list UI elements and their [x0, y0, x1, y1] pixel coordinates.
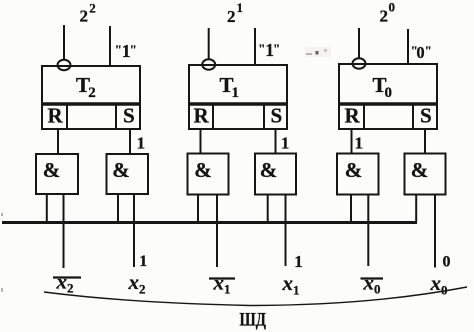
inverter bubble T1 [202, 59, 215, 69]
flip-flop T1 R cell [189, 104, 213, 130]
svg-text:S: S [271, 104, 283, 128]
svg-text:&: & [112, 158, 130, 182]
flip-flop T2 middle cell [67, 104, 116, 129]
and-gate G4 [255, 154, 296, 195]
svg-text:1: 1 [139, 253, 147, 270]
label x1 [282, 271, 300, 298]
svg-text:0: 0 [443, 253, 451, 270]
scan speck smudge [305, 47, 331, 57]
label x1-bar [209, 271, 235, 297]
wire S1 to gate G4 [275, 129, 277, 154]
label "0" T0 [411, 43, 432, 62]
wire input 2^2 [63, 25, 65, 60]
wire S0 to gate G6 [424, 129, 426, 154]
and-gate G2 [107, 154, 149, 194]
label x0 [430, 271, 448, 298]
flip-flop T1 divider [189, 102, 287, 106]
bus line [2, 221, 417, 224]
svg-text:0: 0 [389, 0, 396, 15]
svg-text:x: x [56, 270, 68, 294]
svg-text:ШД: ШД [240, 311, 267, 331]
svg-text:&: & [43, 158, 61, 182]
wire R2 to gate G1 [57, 129, 59, 154]
wire input "0" T0 [407, 29, 409, 64]
label x2 [128, 270, 146, 297]
svg-text:2: 2 [227, 7, 236, 26]
wire G5 right leg to x0-bar [367, 195, 369, 267]
svg-text:x: x [128, 270, 140, 294]
svg-text:R: R [48, 104, 64, 128]
svg-text:1: 1 [293, 283, 300, 298]
svg-text:1: 1 [294, 252, 303, 271]
flip-flop T1 S cell [264, 104, 287, 130]
svg-text:2: 2 [139, 282, 146, 297]
wire G1 left leg [46, 194, 48, 222]
svg-text:1: 1 [355, 134, 364, 153]
flip-flop T0 R cell [339, 104, 364, 130]
svg-text:S: S [420, 104, 432, 128]
svg-text:2: 2 [88, 85, 96, 101]
svg-text:&: & [194, 158, 212, 182]
svg-text:&: & [260, 158, 278, 182]
svg-text:1: 1 [237, 0, 244, 15]
flip-flop T1 body [189, 65, 287, 104]
svg-text:0: 0 [385, 85, 393, 101]
label x2-bar [53, 270, 81, 296]
flip-flop T2 R cell [42, 104, 67, 130]
wire input "1" T2 [109, 26, 111, 66]
wire G6 right leg to x0 [434, 195, 436, 268]
svg-text:1: 1 [232, 85, 240, 101]
wire input 2^1 [208, 28, 210, 59]
wire G3 right leg to x1-bar [216, 195, 218, 268]
and-gate G5 [337, 154, 379, 195]
and-gate G3 [188, 154, 229, 195]
flip-flop T2 body [42, 66, 140, 104]
wire G2 left leg [117, 194, 119, 222]
svg-text:x: x [213, 271, 225, 295]
svg-text:0: 0 [416, 43, 424, 62]
flip-flop T0 body [339, 64, 437, 104]
svg-text:": " [425, 43, 432, 58]
scan speck 3 [1, 213, 3, 216]
svg-text:&: & [345, 158, 363, 182]
label "1" T2 [115, 41, 137, 61]
wire G6 left leg [415, 195, 417, 223]
svg-text:x: x [363, 271, 375, 295]
wire G2 right leg to x2 [133, 194, 135, 267]
svg-text:R: R [345, 104, 361, 128]
svg-text:0: 0 [374, 282, 381, 297]
flip-flop T1 middle cell [213, 104, 264, 129]
wire input 2^0 [358, 28, 360, 58]
svg-text:x: x [282, 271, 294, 295]
wire R0 to gate G5 [351, 129, 353, 154]
flip-flop T0 divider [339, 102, 437, 106]
svg-text:": " [273, 41, 280, 56]
wire G4 left leg [267, 195, 269, 223]
label 2^2 [80, 1, 96, 26]
wire G4 right leg to x1 [285, 195, 287, 267]
label 2^1 [227, 0, 243, 26]
inverter bubble T2 [58, 60, 71, 70]
wire G5 left leg [350, 195, 352, 223]
and-gate G1 [36, 154, 78, 194]
label 2^0 [380, 0, 396, 26]
and-gate G6 [405, 154, 446, 195]
svg-text:2: 2 [67, 281, 74, 296]
brace curve for bus group [44, 287, 467, 306]
wire input "1" T1 [254, 28, 256, 65]
svg-text:1: 1 [281, 134, 289, 153]
wire R1 to gate G3 [200, 129, 202, 154]
wire S2 to gate G2 [129, 129, 131, 154]
svg-text:S: S [123, 104, 135, 128]
inverter bubble T0 [353, 58, 366, 68]
wire G1 right leg to x2-bar [63, 194, 65, 268]
flip-flop T2 S cell [116, 104, 140, 130]
svg-text:2: 2 [380, 7, 389, 26]
svg-text:1: 1 [137, 134, 146, 153]
svg-text:1: 1 [224, 282, 231, 297]
svg-text:&: & [411, 158, 429, 182]
svg-text:": " [130, 42, 137, 57]
label x0-bar [361, 271, 384, 297]
wire G3 left leg [197, 195, 199, 223]
flip-flop T0 middle cell [364, 104, 413, 129]
flip-flop T0 S cell [413, 104, 437, 130]
svg-text:R: R [194, 104, 210, 128]
label "1" T1 [258, 40, 280, 60]
flip-flop T2 divider [42, 102, 140, 106]
svg-text:2: 2 [89, 1, 96, 16]
svg-text:2: 2 [80, 7, 89, 26]
scan speck 4 [1, 288, 3, 292]
